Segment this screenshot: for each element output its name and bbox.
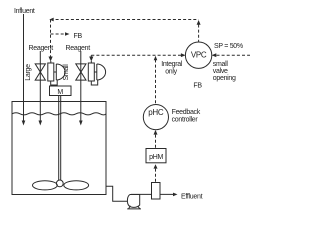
impeller hub <box>56 180 63 187</box>
arrow junction up <box>154 56 158 61</box>
arrow reagent large into tank <box>39 121 43 126</box>
valve V1 bracket <box>51 80 58 85</box>
svg-text:SP = 50%: SP = 50% <box>214 43 243 50</box>
valve V1 actuator D <box>54 64 65 80</box>
agitator shaft <box>58 96 60 181</box>
signal top trunk <box>51 19 199 21</box>
arrow into small valve <box>89 57 93 62</box>
svg-text:Reagent: Reagent <box>66 45 91 52</box>
svg-text:valve: valve <box>213 68 228 75</box>
svg-text:M: M <box>57 89 63 96</box>
wire pump discharge / effluent line <box>131 193 175 195</box>
valve V2 small bowtie <box>76 64 86 80</box>
svg-text:Integral: Integral <box>161 61 183 68</box>
indicator pHM box <box>146 149 166 163</box>
signal drop to large valve <box>50 20 52 58</box>
arrow SP into VPC <box>212 53 217 57</box>
wire influent pipe <box>23 14 25 122</box>
signal mid line pHC to VPC and small valve <box>91 54 182 56</box>
controller pHC circle <box>143 105 168 130</box>
arrow VPC up to trunk <box>197 20 201 25</box>
valve V1 positioner rect <box>48 63 54 81</box>
tank <box>12 102 106 195</box>
impeller blade right <box>64 181 89 190</box>
pH sensor inline element <box>152 183 161 200</box>
wire reagent pipe large <box>39 51 41 122</box>
svg-text:Feedback: Feedback <box>172 109 201 116</box>
signal pHC riser <box>155 60 157 105</box>
motor M box <box>50 86 72 96</box>
svg-text:small: small <box>213 61 229 68</box>
arrow into pHM from below <box>154 164 158 168</box>
wire reagent pipe small <box>80 51 82 122</box>
valve V1 large bowtie <box>35 64 45 80</box>
signal SP line <box>217 54 251 56</box>
svg-text:pHM: pHM <box>149 154 163 161</box>
svg-text:FB: FB <box>193 83 202 90</box>
arrow effluent <box>173 193 178 197</box>
arrow reagent small into tank <box>79 121 83 126</box>
svg-text:FB: FB <box>74 33 83 40</box>
valve V2 bracket <box>91 80 97 85</box>
arrow into large valve <box>49 57 53 62</box>
valve V2 positioner rect <box>88 63 94 81</box>
svg-text:VPC: VPC <box>191 50 207 59</box>
wire tank outlet <box>106 186 127 201</box>
controller VPC circle <box>185 42 211 68</box>
svg-text:Large: Large <box>25 64 32 81</box>
signal VPC output riser <box>198 25 200 43</box>
signal sensor to pHM <box>155 169 157 183</box>
arrow FB branch right <box>65 32 70 36</box>
arrow FB into VPC left <box>181 53 186 57</box>
svg-text:only: only <box>165 69 177 76</box>
arrow influent into tank <box>22 121 26 126</box>
liquid surface wave <box>12 113 106 115</box>
signal FB branch <box>51 33 66 35</box>
svg-text:Small: Small <box>63 64 70 81</box>
svg-text:opening: opening <box>213 75 236 82</box>
arrow corner top-left <box>49 18 53 22</box>
signal pHM to pHC <box>155 135 157 149</box>
svg-text:Influent: Influent <box>14 8 35 15</box>
signal drop to small valve <box>90 55 92 57</box>
arrow into pHC from below <box>154 130 158 135</box>
svg-text:controller: controller <box>172 116 199 123</box>
svg-text:pHC: pHC <box>148 108 164 117</box>
valve V2 actuator D <box>94 64 105 80</box>
svg-text:Reagent: Reagent <box>29 45 54 52</box>
impeller blade left <box>33 181 58 190</box>
pump P1 <box>127 195 139 208</box>
svg-text:Effluent: Effluent <box>181 194 203 201</box>
